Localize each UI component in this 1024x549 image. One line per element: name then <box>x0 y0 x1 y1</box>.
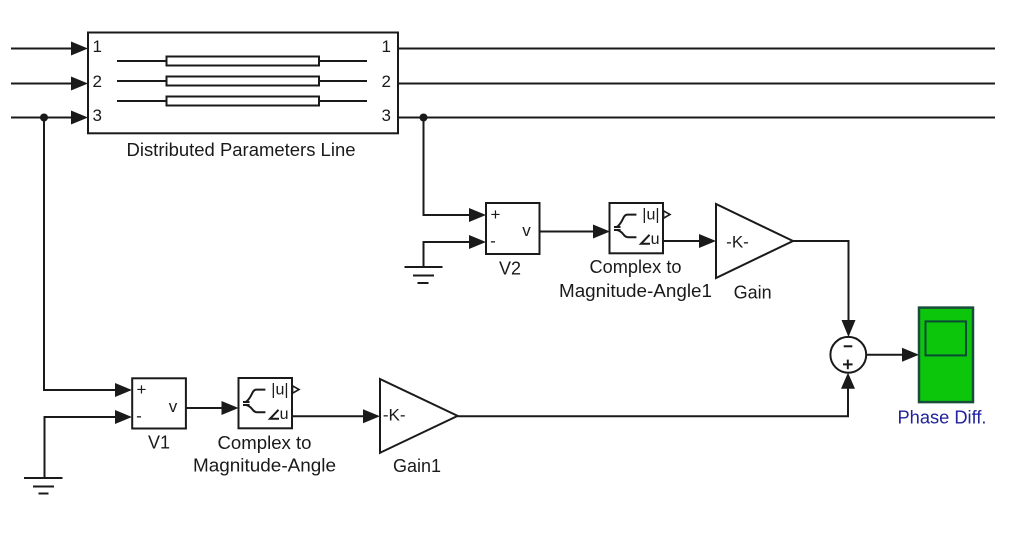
wire Complex1 angle output to Gain <box>663 234 716 248</box>
complex to magnitude-angle U1 (Complex to Magnitude-Angle) <box>239 378 300 428</box>
wire sum output to scope <box>866 348 919 362</box>
voltage measurement V1 <box>132 378 186 428</box>
svg-text:-K-: -K- <box>383 406 406 425</box>
sum block <box>830 337 866 373</box>
svg-text:Gain1: Gain1 <box>393 456 441 476</box>
svg-text:Gain: Gain <box>734 283 772 303</box>
svg-text:Complex to: Complex to <box>218 433 312 453</box>
svg-text:+: + <box>137 380 147 399</box>
svg-text:|u|: |u| <box>271 382 288 399</box>
gain Gain1 <box>380 379 458 453</box>
junction on output wire 3 <box>420 114 428 122</box>
svg-text:|u|: |u| <box>642 207 659 224</box>
wire input 1 <box>11 42 88 56</box>
wire from input 3 junction to V1 plus input <box>44 118 132 398</box>
svg-text:v: v <box>522 221 531 240</box>
ground (under V2) <box>405 267 443 283</box>
svg-text:Complex to: Complex to <box>590 257 682 277</box>
svg-text:2: 2 <box>382 72 391 91</box>
block Distributed Parameters Line <box>88 33 398 134</box>
svg-text:-: - <box>136 407 142 426</box>
wire from ground to V2 minus input <box>424 235 487 267</box>
svg-text:Phase Diff.: Phase Diff. <box>898 408 987 428</box>
svg-text:-K-: -K- <box>726 233 749 252</box>
wire input 2 <box>11 77 88 91</box>
wire Gain output to sum minus input <box>793 241 856 337</box>
wire output 2 <box>398 83 995 85</box>
svg-text:V2: V2 <box>499 259 521 279</box>
voltage measurement V2 <box>486 203 540 254</box>
wire V1 output to Complex to Magnitude-Angle <box>186 401 239 415</box>
scope Phase Diff. <box>919 308 973 403</box>
wire output 1 <box>398 48 995 50</box>
gain Gain <box>716 204 793 278</box>
complex to magnitude-angle U2 (Complex to Magnitude-Angle1) <box>610 203 671 253</box>
svg-text:1: 1 <box>382 37 391 56</box>
wire Complex angle output to Gain1 <box>292 409 380 423</box>
svg-text:v: v <box>169 397 178 416</box>
svg-text:Magnitude-Angle1: Magnitude-Angle1 <box>559 281 712 301</box>
svg-text:1: 1 <box>93 37 102 56</box>
wire from ground to V1 minus input <box>45 410 133 478</box>
svg-text:3: 3 <box>382 106 391 125</box>
ground (under V1) <box>24 478 63 494</box>
svg-text:u: u <box>280 406 289 423</box>
svg-text:V1: V1 <box>148 433 170 453</box>
junction on input wire 3 <box>40 114 48 122</box>
svg-text:Distributed Parameters Line: Distributed Parameters Line <box>127 140 356 160</box>
wire from output 3 junction to V2 plus input <box>424 118 487 223</box>
svg-text:+: + <box>491 205 501 224</box>
wire input 3 <box>11 111 88 125</box>
wire Gain1 output to sum plus input <box>458 373 855 417</box>
svg-text:-: - <box>490 232 496 251</box>
svg-text:3: 3 <box>93 106 102 125</box>
svg-text:2: 2 <box>93 72 102 91</box>
svg-text:u: u <box>651 231 660 248</box>
wire output 3 <box>398 117 995 119</box>
wire V2 output to Complex to Magnitude-Angle1 <box>540 225 611 239</box>
svg-text:Magnitude-Angle: Magnitude-Angle <box>193 456 336 476</box>
